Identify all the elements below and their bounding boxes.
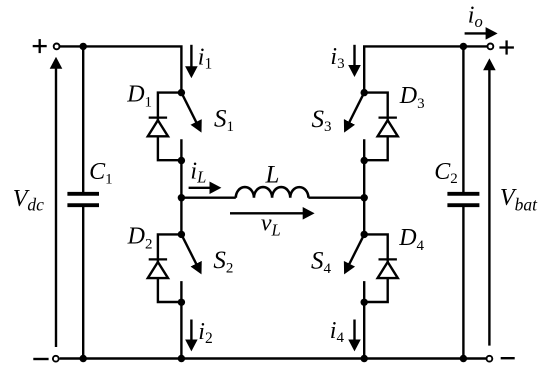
svg-text:L: L xyxy=(265,161,280,188)
